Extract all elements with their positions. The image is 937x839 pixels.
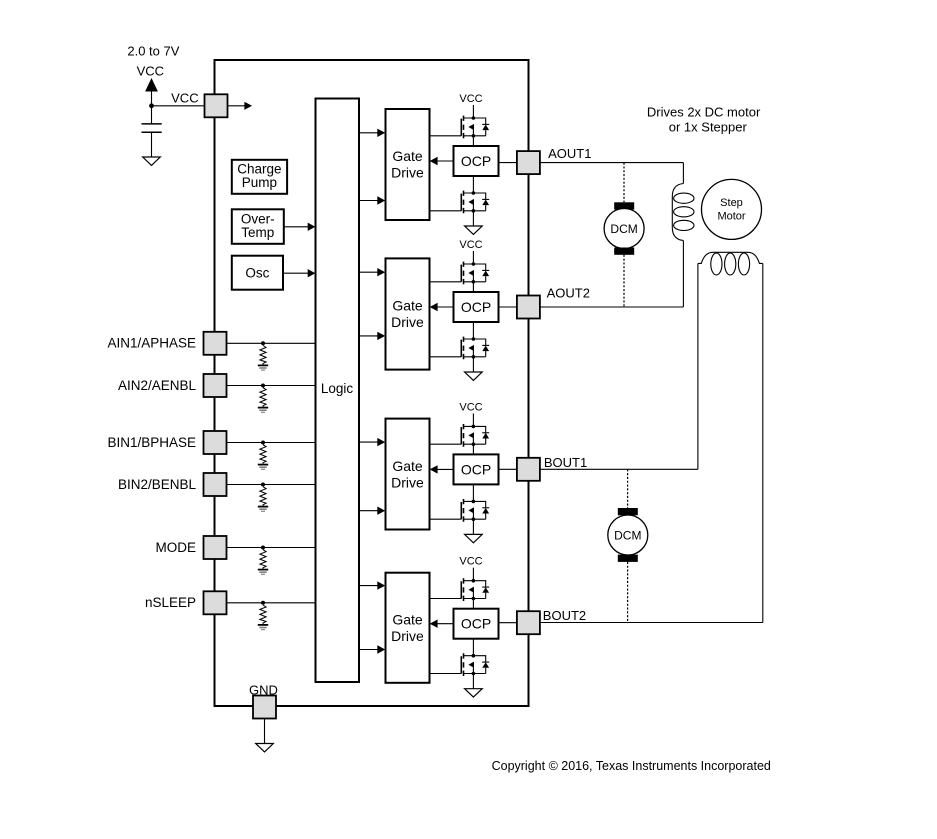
wire Gate Drive A1 to Q1 gate — [430, 135, 462, 137]
node VCC junction dot — [149, 103, 154, 108]
wire nSLEEP to Logic — [227, 602, 316, 604]
svg-text:BIN1/BPHASE: BIN1/BPHASE — [107, 435, 196, 450]
wire OCP B2 to pin BOUT2 — [499, 622, 518, 624]
wire Q4 source to ground — [472, 357, 474, 372]
wire Logic to Gate Drive B2 arrow 2 — [359, 649, 378, 651]
wire Logic to Gate Drive A1 arrow 1 — [359, 132, 378, 134]
block OCP B1 — [454, 454, 499, 484]
wire BOUT2 net — [540, 622, 763, 624]
pin AIN1/APHASE — [204, 332, 227, 355]
capacitor C1 (VCC bypass) — [151, 106, 153, 157]
svg-text:Gate: Gate — [392, 148, 423, 164]
wire Gate Drive B2 to Q8 gate — [430, 673, 462, 675]
svg-text:AIN1/APHASE: AIN1/APHASE — [107, 336, 196, 351]
wire Q8 source to ground — [472, 674, 474, 689]
svg-text:VCC: VCC — [459, 239, 482, 251]
svg-text:or 1x Stepper: or 1x Stepper — [669, 120, 748, 135]
pin MODE — [204, 536, 227, 559]
block Gate Drive A1 — [386, 109, 430, 220]
wire AOUT2 net — [540, 306, 684, 308]
motor DCM2 (DC motor on B outputs) — [618, 508, 638, 515]
ground (row A1) — [465, 226, 483, 234]
ground (row A2) — [465, 372, 483, 380]
svg-text:DCM: DCM — [614, 528, 641, 542]
resistor R2 pulldown on AIN2/AENBL with ground — [258, 384, 268, 413]
ground (below C1) — [143, 157, 161, 165]
wire dashed DCM2 to BOUT2 — [627, 562, 629, 623]
svg-text:AIN2/AENBL: AIN2/AENBL — [118, 378, 197, 393]
wire OCP B1 to pin BOUT1 — [499, 468, 518, 470]
motor DCM1 (DC motor on A outputs) — [614, 202, 634, 209]
svg-text:AOUT1: AOUT1 — [548, 146, 591, 161]
resistor R3 pulldown on BIN1/BPHASE with ground — [258, 441, 268, 470]
wire OCP A1 to Gate Drive A1 with arrow — [437, 160, 454, 162]
wire Gate Drive B2 to Q7 gate — [430, 598, 462, 600]
block Gate Drive B2 — [386, 573, 430, 683]
pin AOUT2 — [517, 296, 540, 319]
resistor R5 pulldown on MODE with ground — [258, 546, 268, 575]
wire OCP B2 to Q8 drain — [472, 639, 474, 656]
svg-text:OCP: OCP — [461, 461, 491, 477]
transistor Q1 (high-side A1) — [461, 116, 489, 139]
pin VCC — [205, 94, 228, 117]
wire OCP B2 to Gate Drive B2 with arrow — [437, 623, 454, 625]
wire Osc to Logic with arrow — [283, 272, 308, 274]
svg-text:VCC: VCC — [137, 63, 164, 78]
wire dashed DCM1 to AOUT2 — [623, 255, 625, 307]
transistor Q2 (low-side A1) — [461, 191, 489, 214]
wire Q5 source to OCP B1 — [472, 444, 474, 454]
wire Q2 source to ground — [472, 211, 474, 226]
svg-text:Step: Step — [720, 197, 743, 209]
svg-text:2.0 to 7V: 2.0 to 7V — [127, 44, 179, 59]
wire Logic to Gate Drive B1 arrow 1 — [359, 441, 378, 443]
wire Gate Drive B1 to Q5 gate — [430, 443, 462, 445]
svg-text:Temp: Temp — [241, 225, 274, 240]
wire Logic to Gate Drive A1 arrow 2 — [359, 200, 378, 202]
wire Gate Drive B1 to Q6 gate — [430, 518, 462, 520]
wire AOUT1 down to winding LA — [682, 163, 684, 184]
wire AIN1/APHASE to Logic — [227, 342, 316, 344]
svg-text:DCM: DCM — [610, 222, 637, 236]
wire VCC to Q1 drain — [472, 105, 474, 118]
svg-text:VCC: VCC — [459, 93, 482, 105]
svg-text:Motor: Motor — [717, 211, 745, 223]
resistor R4 pulldown on BIN2/BENBL with ground — [258, 483, 268, 512]
wire OCP A2 to Gate Drive A2 with arrow — [437, 306, 454, 308]
wire OCP A1 to pin AOUT1 — [499, 162, 518, 164]
wire dashed BOUT1 to DCM2 — [627, 469, 629, 508]
block Logic — [316, 99, 360, 683]
block OCP A2 — [454, 292, 499, 322]
wire VCC to Q7 drain — [472, 568, 474, 581]
wire dashed AOUT1 to DCM1 — [623, 163, 625, 203]
pin BOUT2 — [517, 611, 540, 634]
wire Q1 source to OCP A1 — [472, 136, 474, 146]
transistor Q6 (low-side B1) — [461, 499, 489, 522]
wire MODE to Logic — [227, 547, 316, 549]
svg-text:MODE: MODE — [156, 540, 197, 555]
svg-text:OCP: OCP — [461, 153, 491, 169]
svg-text:Pump: Pump — [242, 175, 277, 190]
block Gate Drive B1 — [386, 419, 430, 530]
svg-text:OCP: OCP — [461, 299, 491, 315]
block Charge Pump — [232, 160, 287, 194]
svg-text:BOUT2: BOUT2 — [543, 608, 586, 623]
svg-text:BIN2/BENBL: BIN2/BENBL — [118, 477, 197, 492]
wire BIN1/BPHASE to Logic — [227, 442, 316, 444]
transistor Q3 (high-side A2) — [461, 262, 489, 285]
wire winding LB down to BOUT2 — [762, 264, 764, 623]
svg-text:AOUT2: AOUT2 — [547, 286, 590, 301]
pin AOUT1 — [517, 151, 540, 174]
wire VCC pin into IC with arrow — [228, 105, 246, 107]
wire BOUT1 net — [540, 468, 698, 470]
wire OCP A2 to pin AOUT2 — [499, 306, 518, 308]
svg-text:VCC: VCC — [459, 556, 482, 568]
svg-text:Copyright © 2016, Texas Instru: Copyright © 2016, Texas Instruments Inco… — [492, 759, 771, 773]
block Over-Temp — [232, 209, 284, 244]
pin BIN2/BENBL — [204, 473, 227, 496]
wire Q3 source to OCP A2 — [472, 282, 474, 292]
block Osc — [232, 256, 283, 290]
svg-text:nSLEEP: nSLEEP — [145, 595, 196, 610]
resistor R1 pulldown on AIN1/APHASE with ground — [258, 341, 268, 370]
transistor Q4 (low-side A2) — [461, 337, 489, 360]
svg-text:Gate: Gate — [392, 458, 423, 474]
svg-text:Gate: Gate — [392, 298, 423, 314]
wire VCC node to VCC pin — [152, 105, 205, 107]
pin AIN2/AENBL — [204, 374, 227, 397]
transistor Q8 (low-side B2) — [461, 653, 489, 676]
IC boundary rectangle — [215, 60, 529, 706]
svg-text:OCP: OCP — [461, 616, 491, 632]
svg-text:Drives 2x DC motor: Drives 2x DC motor — [647, 105, 761, 120]
wire VCC to Q5 drain — [472, 413, 474, 426]
svg-text:BOUT1: BOUT1 — [544, 455, 587, 470]
block Gate Drive A2 — [386, 258, 430, 369]
wire Logic to Gate Drive A2 arrow 2 — [359, 335, 378, 337]
pin nSLEEP — [204, 591, 227, 614]
wire BIN2/BENBL to Logic — [227, 484, 316, 486]
wire Logic to Gate Drive B1 arrow 2 — [359, 510, 378, 512]
svg-text:Drive: Drive — [391, 628, 424, 644]
wire Q7 source to OCP B2 — [472, 599, 474, 609]
wire OCP B1 to Q6 drain — [472, 484, 474, 501]
wire Gate Drive A2 to Q4 gate — [430, 356, 462, 358]
ground (row B1) — [465, 534, 483, 542]
motor Step Motor — [702, 179, 762, 239]
wire GND pin to ground — [264, 719, 266, 744]
wire Gate Drive A2 to Q3 gate — [430, 281, 462, 283]
transistor Q7 (high-side B2) — [461, 578, 489, 601]
resistor R6 pulldown on nSLEEP with ground — [258, 601, 268, 630]
pin BOUT1 — [517, 458, 540, 481]
svg-text:VCC: VCC — [171, 90, 198, 105]
inductor LB (stepper B winding) — [698, 252, 763, 263]
wire BOUT1 up to winding LB — [697, 264, 699, 470]
ground (GND pin) — [256, 744, 274, 752]
wire Logic to Gate Drive B2 arrow 1 — [359, 585, 378, 587]
inductor LA (stepper A winding) — [672, 184, 683, 241]
VCC supply arrow — [145, 78, 158, 92]
wire Logic to Gate Drive A2 arrow 1 — [359, 271, 378, 273]
wire Over-Temp to Logic with arrow — [284, 226, 308, 228]
wire winding LA down to AOUT2 — [682, 241, 684, 308]
wire Q6 source to ground — [472, 519, 474, 534]
wire AIN2/AENBL to Logic — [227, 385, 316, 387]
block OCP B2 — [454, 609, 499, 639]
wire OCP A1 to Q2 drain — [472, 176, 474, 193]
svg-text:Gate: Gate — [392, 611, 423, 627]
wire AOUT1 net — [540, 162, 684, 164]
wire Gate Drive A1 to Q2 gate — [430, 210, 462, 212]
svg-text:VCC: VCC — [459, 401, 482, 413]
pin BIN1/BPHASE — [204, 431, 227, 454]
svg-text:Logic: Logic — [321, 381, 354, 396]
svg-text:Drive: Drive — [391, 474, 424, 490]
svg-text:Osc: Osc — [245, 266, 269, 281]
pin GND — [253, 696, 276, 719]
wire OCP A2 to Q4 drain — [472, 322, 474, 339]
svg-text:Drive: Drive — [391, 314, 424, 330]
svg-text:Drive: Drive — [391, 165, 424, 181]
block OCP A1 — [454, 146, 499, 176]
ground (row B2) — [465, 689, 483, 697]
transistor Q5 (high-side B1) — [461, 424, 489, 447]
wire VCC to Q3 drain — [472, 251, 474, 264]
wire OCP B1 to Gate Drive B1 with arrow — [437, 468, 454, 470]
